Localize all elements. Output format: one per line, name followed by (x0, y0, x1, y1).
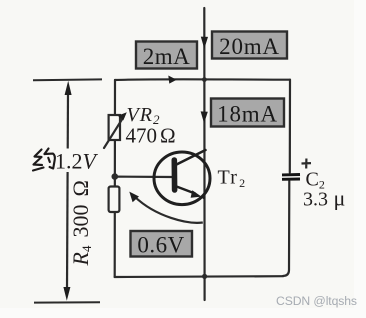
watermark (276, 294, 357, 308)
dimension extension line top (33, 78, 102, 81)
transistor Tr2 collector lead (177, 150, 206, 165)
arrow 2mA on top rail (168, 76, 176, 84)
svg-text:2mA: 2mA (143, 44, 191, 69)
arrow 18mA on center wire (201, 111, 208, 123)
dimension line with arrows (67, 92, 68, 290)
wire left rail (114, 80, 117, 277)
wire base (115, 176, 172, 179)
capacitor plus sign (302, 159, 312, 169)
wire top rail (115, 78, 290, 81)
svg-text:470Ω: 470Ω (126, 124, 176, 148)
node: bottom cross junction (202, 274, 207, 279)
label box 2mA (136, 42, 197, 70)
wire right rail upper (289, 80, 291, 173)
transistor Tr2 base bar (172, 160, 178, 190)
wire bottom rail (115, 275, 283, 278)
node: top tee junction (202, 77, 207, 82)
resistor R body (109, 187, 120, 213)
svg-text:3.3μ: 3.3μ (303, 186, 345, 211)
curved annotation arrow (135, 197, 203, 223)
transistor Tr2 emitter lead (177, 187, 196, 194)
wire right rail lower (283, 181, 289, 276)
variable resistor VR2 body (109, 115, 120, 140)
wire emitter to bottom (202, 197, 204, 199)
node: base divider junction (112, 173, 119, 180)
background patch behind 1.2V text (54, 149, 99, 173)
arrow 20mA on center wire (201, 37, 208, 49)
capacitor C2 plates (282, 173, 300, 176)
svg-text:1.2V: 1.2V (55, 149, 99, 174)
label box 20mA (212, 32, 287, 60)
svg-text:18mA: 18mA (217, 102, 278, 127)
label box 0.6V (131, 231, 193, 258)
svg-text:20mA: 20mA (219, 34, 280, 59)
label approx 1.2V : hand-drawn CJK 'yue' (33, 149, 55, 171)
transistor Tr2 circle (154, 152, 210, 205)
label box 18mA (211, 99, 284, 127)
variable resistor VR2 arrow (104, 117, 124, 148)
svg-text:0.6V: 0.6V (137, 233, 184, 258)
svg-text:R4300Ω: R4300Ω (68, 180, 94, 266)
wire center vertical (203, 8, 206, 300)
dimension extension line bottom (34, 301, 100, 303)
